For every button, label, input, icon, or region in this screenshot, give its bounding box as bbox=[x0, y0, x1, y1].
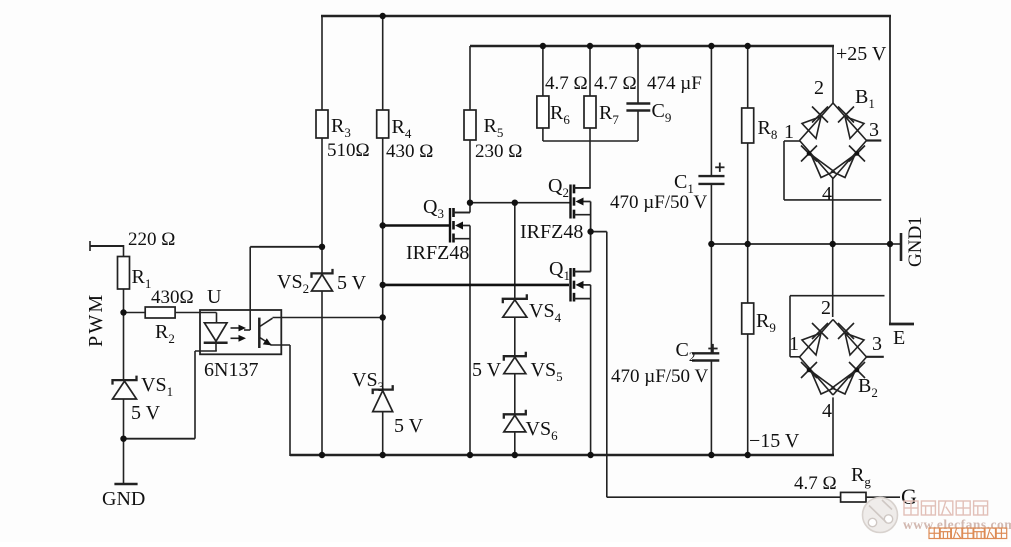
node GND1/right rail bbox=[887, 241, 893, 247]
label B1 pin2 bbox=[814, 77, 824, 99]
capacitor C9 bbox=[626, 104, 650, 111]
svg-text:220 Ω: 220 Ω bbox=[128, 229, 175, 250]
svg-text:430Ω: 430Ω bbox=[151, 287, 194, 308]
label 220 Ohm bbox=[128, 229, 175, 250]
node -15V/VS6 bbox=[512, 452, 518, 458]
node R4/opto collector bbox=[380, 314, 386, 320]
wire output drop bbox=[606, 232, 608, 498]
wire Q3 gate line bbox=[383, 224, 449, 227]
svg-text:4: 4 bbox=[822, 400, 832, 422]
label 230 Ohm bbox=[475, 141, 522, 162]
resistor Rg bbox=[841, 492, 866, 502]
watermark logo bbox=[863, 498, 898, 533]
terminal E bbox=[889, 323, 914, 326]
wire VS4 column top bbox=[514, 203, 516, 299]
wire R9 bottom bbox=[747, 334, 749, 455]
svg-text:IRFZ48: IRFZ48 bbox=[406, 242, 469, 264]
wire C1 bottom bbox=[710, 184, 712, 244]
svg-text:IRFZ48: IRFZ48 bbox=[520, 221, 583, 243]
op-amp U optocoupler 6N137 bbox=[200, 310, 281, 354]
node R1/R2 bbox=[120, 309, 126, 315]
svg-text:4: 4 bbox=[822, 183, 832, 205]
node top rail / R4 bbox=[380, 13, 386, 19]
wire Q2 source riser bbox=[590, 202, 592, 232]
svg-text:230 Ω: 230 Ω bbox=[475, 141, 522, 162]
wire R1 top bbox=[123, 245, 125, 257]
wire opto emitter out bbox=[271, 344, 291, 346]
svg-text:6N137: 6N137 bbox=[204, 359, 258, 381]
node -15V/VS2 bbox=[319, 452, 325, 458]
wire C9 bottom bbox=[637, 111, 639, 142]
wire top GND1 rail bbox=[321, 15, 891, 18]
label GND bbox=[102, 488, 145, 510]
node gate bus/VS4 bbox=[512, 200, 518, 206]
wire Q3 drain stub bbox=[455, 212, 470, 214]
watermark url bbox=[903, 517, 1011, 532]
label Rg bbox=[851, 464, 871, 489]
capacitor C1 bbox=[698, 163, 724, 184]
node +25V/R7 bbox=[587, 43, 593, 49]
svg-text:470 µF/50 V: 470 µF/50 V bbox=[611, 366, 708, 387]
label 474 uF bbox=[647, 73, 702, 94]
wire B1 pin1 stub bbox=[784, 140, 800, 142]
label 5 V (VS2) bbox=[337, 272, 367, 294]
label VS4 bbox=[529, 300, 562, 325]
wire R9 top bbox=[747, 244, 749, 303]
resistor R4 bbox=[377, 110, 389, 138]
label B1 pin1 bbox=[784, 121, 794, 143]
svg-text:E: E bbox=[893, 327, 905, 349]
wire R7 bottom to Q2 drain bbox=[589, 128, 591, 188]
svg-text:PWM: PWM bbox=[85, 293, 107, 347]
label 6N137 bbox=[204, 359, 258, 381]
node R5/gate bus bbox=[467, 200, 473, 206]
label R3 bbox=[331, 115, 351, 140]
label B2 bbox=[858, 375, 878, 400]
wire R2 to optocoupler bbox=[175, 312, 216, 314]
label IRFZ48 (Q2) bbox=[520, 221, 583, 243]
wire VS3 anode down bbox=[382, 412, 384, 455]
ground GND1 bbox=[890, 233, 901, 261]
wire B2 pin3 stub bbox=[866, 356, 884, 358]
wire VS4-VS5 link bbox=[514, 317, 516, 355]
wire +25V rail bbox=[470, 45, 834, 47]
wire C2 bottom bbox=[710, 361, 712, 456]
svg-text:1: 1 bbox=[789, 333, 799, 355]
label R7 bbox=[599, 102, 619, 127]
svg-text:5 V: 5 V bbox=[337, 272, 367, 294]
svg-text:5 V: 5 V bbox=[131, 402, 161, 424]
svg-text:2: 2 bbox=[814, 77, 824, 99]
wire R3 column top bbox=[321, 16, 323, 110]
svg-text:430 Ω: 430 Ω bbox=[386, 141, 433, 162]
label G bbox=[901, 484, 917, 509]
wire R6R7C9 link bbox=[543, 140, 638, 142]
wire LED anode drop bbox=[216, 313, 218, 323]
wire R8 top bbox=[747, 46, 749, 108]
watermark title bbox=[904, 501, 988, 515]
label -15 V bbox=[749, 430, 800, 452]
label VS1 bbox=[141, 374, 173, 399]
label B2 pin1 bbox=[789, 333, 799, 355]
node +25V/R8 bbox=[745, 43, 751, 49]
node R4/Q3 gate bbox=[380, 222, 386, 228]
wire C2 top bbox=[710, 244, 712, 353]
label C1 bbox=[674, 171, 694, 196]
svg-text:−15 V: −15 V bbox=[749, 430, 800, 452]
node Q2 source bbox=[587, 228, 593, 234]
transistor Q2 bbox=[571, 185, 591, 219]
svg-text:4.7 Ω: 4.7 Ω bbox=[794, 473, 837, 494]
wire Rg to G bbox=[866, 496, 900, 498]
wire C1 top bbox=[710, 46, 712, 176]
wire R8 bottom bbox=[747, 143, 749, 244]
wire E terminal drop bbox=[889, 244, 891, 324]
label E bbox=[893, 327, 905, 349]
label 4.7 Ohm (Rg) bbox=[794, 473, 837, 494]
node -15V/C2 bbox=[708, 452, 714, 458]
node R4/Q1 gate bbox=[380, 282, 386, 288]
wire VS5-VS6 link bbox=[514, 374, 516, 414]
label 470uF/50V (C2) bbox=[611, 366, 708, 387]
svg-text:510Ω: 510Ω bbox=[327, 140, 370, 161]
bridge B2 bbox=[800, 320, 867, 396]
svg-text:5 V: 5 V bbox=[394, 415, 424, 437]
zener VS4 bbox=[503, 294, 527, 317]
wire Q2 gate bus bbox=[470, 202, 570, 204]
svg-text:+25 V: +25 V bbox=[836, 43, 887, 65]
node GND1/C1 bbox=[708, 241, 714, 247]
resistor R9 bbox=[742, 303, 754, 334]
label B2 pin3 bbox=[872, 333, 882, 355]
label 470uF/50V (C1) bbox=[610, 192, 707, 213]
wire R6 bottom bbox=[542, 128, 544, 141]
ground GND bbox=[114, 483, 137, 486]
wire Q1 drain stub bbox=[574, 271, 591, 273]
svg-text:5 V: 5 V bbox=[472, 359, 502, 381]
node R3/opto Vcc bbox=[319, 244, 325, 250]
label GND1 bbox=[905, 216, 926, 267]
node -15V/Q3 source bbox=[467, 452, 473, 458]
label R9 bbox=[756, 310, 776, 335]
wire opto Vcc to R3 column bbox=[250, 246, 322, 248]
svg-text:GND1: GND1 bbox=[905, 216, 926, 267]
wire Q1 gate line bbox=[383, 284, 569, 287]
wire B1 pin2 stub bbox=[832, 46, 834, 104]
node GND1/B1 pin4 bbox=[830, 241, 836, 247]
wire R1R2 junction to R2 bbox=[124, 312, 146, 314]
transistor Q3 bbox=[450, 208, 470, 243]
wire opto collector output bbox=[273, 317, 383, 319]
wire R3 to VS2 bbox=[321, 138, 323, 273]
wire B2 pin1 loop bbox=[790, 296, 885, 357]
node -15V/Q1 source bbox=[587, 452, 593, 458]
label R8 bbox=[758, 117, 778, 142]
wire GND1 bus bbox=[711, 243, 890, 245]
label VS6 bbox=[526, 418, 559, 443]
wire R5 bottom to Q3 drain bbox=[469, 140, 471, 213]
wire R4 column top bbox=[382, 16, 384, 110]
wire -15V rail bbox=[290, 454, 834, 456]
label B2 pin4 bbox=[822, 400, 832, 422]
wire R7 top bbox=[589, 46, 591, 96]
svg-text:4.7 Ω: 4.7 Ω bbox=[594, 73, 637, 94]
label 4.7 Ohm (R6) bbox=[545, 73, 588, 94]
wire LED cathode return bbox=[124, 438, 196, 440]
resistor R1 bbox=[118, 257, 130, 290]
svg-text:U: U bbox=[207, 286, 222, 308]
resistor R8 bbox=[742, 108, 754, 143]
label 430 Ohm (R2) bbox=[151, 287, 194, 308]
label 430 Ohm (R4) bbox=[386, 141, 433, 162]
wire B1 pin3 stub bbox=[866, 139, 881, 141]
label VS5 bbox=[531, 359, 563, 384]
wire B2 pin2 stub bbox=[832, 244, 834, 317]
resistor R6 bbox=[537, 96, 549, 128]
wire VS2 anode down bbox=[321, 291, 323, 455]
svg-text:www.elecfans.com: www.elecfans.com bbox=[903, 517, 1011, 532]
wire R1 bottom to VS1 bbox=[123, 289, 125, 380]
svg-text:3: 3 bbox=[872, 333, 882, 355]
wire R6 top bbox=[542, 46, 544, 96]
svg-text:GND: GND bbox=[102, 488, 145, 510]
label VS3 bbox=[352, 369, 384, 394]
label B1 pin3 bbox=[869, 119, 879, 141]
wire VS1 anode down to GND bbox=[123, 399, 125, 484]
svg-text:4.7 Ω: 4.7 Ω bbox=[545, 73, 588, 94]
wire B2 pin1 stub bbox=[790, 356, 801, 358]
wire Q2-Q1 link bbox=[590, 232, 592, 272]
label R5 bbox=[484, 115, 504, 140]
label R4 bbox=[392, 116, 412, 141]
wire output branch bbox=[591, 231, 607, 233]
wire B1 pin1 loop bbox=[784, 141, 881, 200]
wire Q2 drain stub bbox=[574, 187, 591, 189]
wire LED cathode jog bbox=[195, 343, 217, 439]
label B1 pin4 bbox=[822, 183, 832, 205]
label 510 Ohm bbox=[327, 140, 370, 161]
label Q1 bbox=[549, 258, 570, 283]
label 5 V (VS1) bbox=[131, 402, 161, 424]
wire R4 down to VS3 bbox=[382, 138, 384, 390]
wire opto Vcc riser bbox=[244, 247, 250, 330]
node -15V/R9 bbox=[745, 452, 751, 458]
svg-text:2: 2 bbox=[821, 297, 831, 319]
label Q2 bbox=[548, 175, 569, 200]
label B2 pin2 bbox=[821, 297, 831, 319]
transistor Q1 bbox=[571, 268, 591, 302]
node GND1/R8 bbox=[745, 241, 751, 247]
node -15V/VS3 bbox=[380, 452, 386, 458]
wire B2 pin4 stub bbox=[832, 397, 834, 456]
svg-text:474 µF: 474 µF bbox=[647, 73, 702, 94]
svg-text:470 µF/50 V: 470 µF/50 V bbox=[610, 192, 707, 213]
watermark source bbox=[929, 528, 1007, 539]
wire C9 top bbox=[637, 46, 639, 104]
node +25V/C9 bbox=[635, 43, 641, 49]
wire B1 pin4 stub bbox=[832, 179, 834, 245]
svg-text:3: 3 bbox=[869, 119, 879, 141]
node VS1/opto return bbox=[120, 436, 126, 442]
label C2 bbox=[676, 339, 696, 364]
node +25V/R6 bbox=[540, 43, 546, 49]
label 5 V (VS5) bbox=[472, 359, 502, 381]
resistor R2 bbox=[145, 307, 175, 318]
resistor R3 bbox=[316, 110, 328, 138]
label +25 V bbox=[836, 43, 887, 65]
label C9 bbox=[652, 100, 672, 125]
label PWM bbox=[85, 293, 107, 347]
label U bbox=[207, 286, 222, 308]
wire Q3 source riser bbox=[469, 226, 471, 456]
wire PWM lead bbox=[90, 241, 124, 251]
wire opto emitter drop bbox=[289, 345, 291, 456]
zener VS5 bbox=[504, 352, 526, 374]
resistor R7 bbox=[584, 96, 596, 128]
zener VS3 bbox=[373, 385, 393, 412]
zener VS6 bbox=[504, 410, 526, 432]
capacitor C2 bbox=[692, 344, 719, 361]
zener VS1 bbox=[113, 376, 137, 399]
label Q3 bbox=[423, 196, 444, 221]
label R6 bbox=[550, 102, 570, 127]
label 5 V (VS3) bbox=[394, 415, 424, 437]
wire Q1 source riser bbox=[590, 285, 592, 455]
label B1 bbox=[855, 86, 875, 111]
label R1 bbox=[132, 266, 152, 291]
bridge B1 bbox=[800, 103, 867, 179]
label 4.7 Ohm (R7) bbox=[594, 73, 637, 94]
wire R5 top bbox=[469, 46, 471, 110]
zener VS2 bbox=[312, 269, 333, 291]
resistor R5 bbox=[464, 110, 476, 140]
node +25V/C1 bbox=[708, 43, 714, 49]
svg-text:1: 1 bbox=[784, 121, 794, 143]
label R2 bbox=[155, 321, 175, 346]
wire VS6 anode down bbox=[514, 432, 516, 455]
wire right rail down bbox=[889, 15, 891, 244]
wire output run to Rg bbox=[607, 496, 841, 498]
label VS2 bbox=[277, 271, 309, 296]
label IRFZ48 (Q3) bbox=[406, 242, 469, 264]
